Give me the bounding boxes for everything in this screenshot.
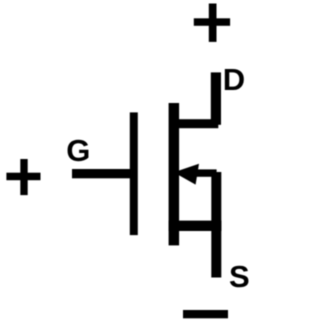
svg-text:G: G <box>66 133 90 168</box>
transistor M1 channel bar <box>169 103 180 245</box>
plus terminal (left, gate supply +) <box>6 159 40 195</box>
wire: drain connector <box>173 119 218 128</box>
svg-text:D: D <box>223 62 245 97</box>
wire: source connector <box>169 221 222 231</box>
transistor M1 gate bar <box>130 112 138 235</box>
wire: source lead (body to source, down to S) <box>211 172 221 278</box>
svg-text:S: S <box>229 259 250 294</box>
wire: gate lead <box>72 169 134 178</box>
plus terminal (top, drain supply +) <box>194 4 230 42</box>
wire: arrow shaft <box>188 169 217 176</box>
minus terminal (bottom, source -) <box>183 310 228 318</box>
wire: drain lead <box>211 72 221 124</box>
transistor M1 body arrow (n-channel) <box>178 164 199 185</box>
